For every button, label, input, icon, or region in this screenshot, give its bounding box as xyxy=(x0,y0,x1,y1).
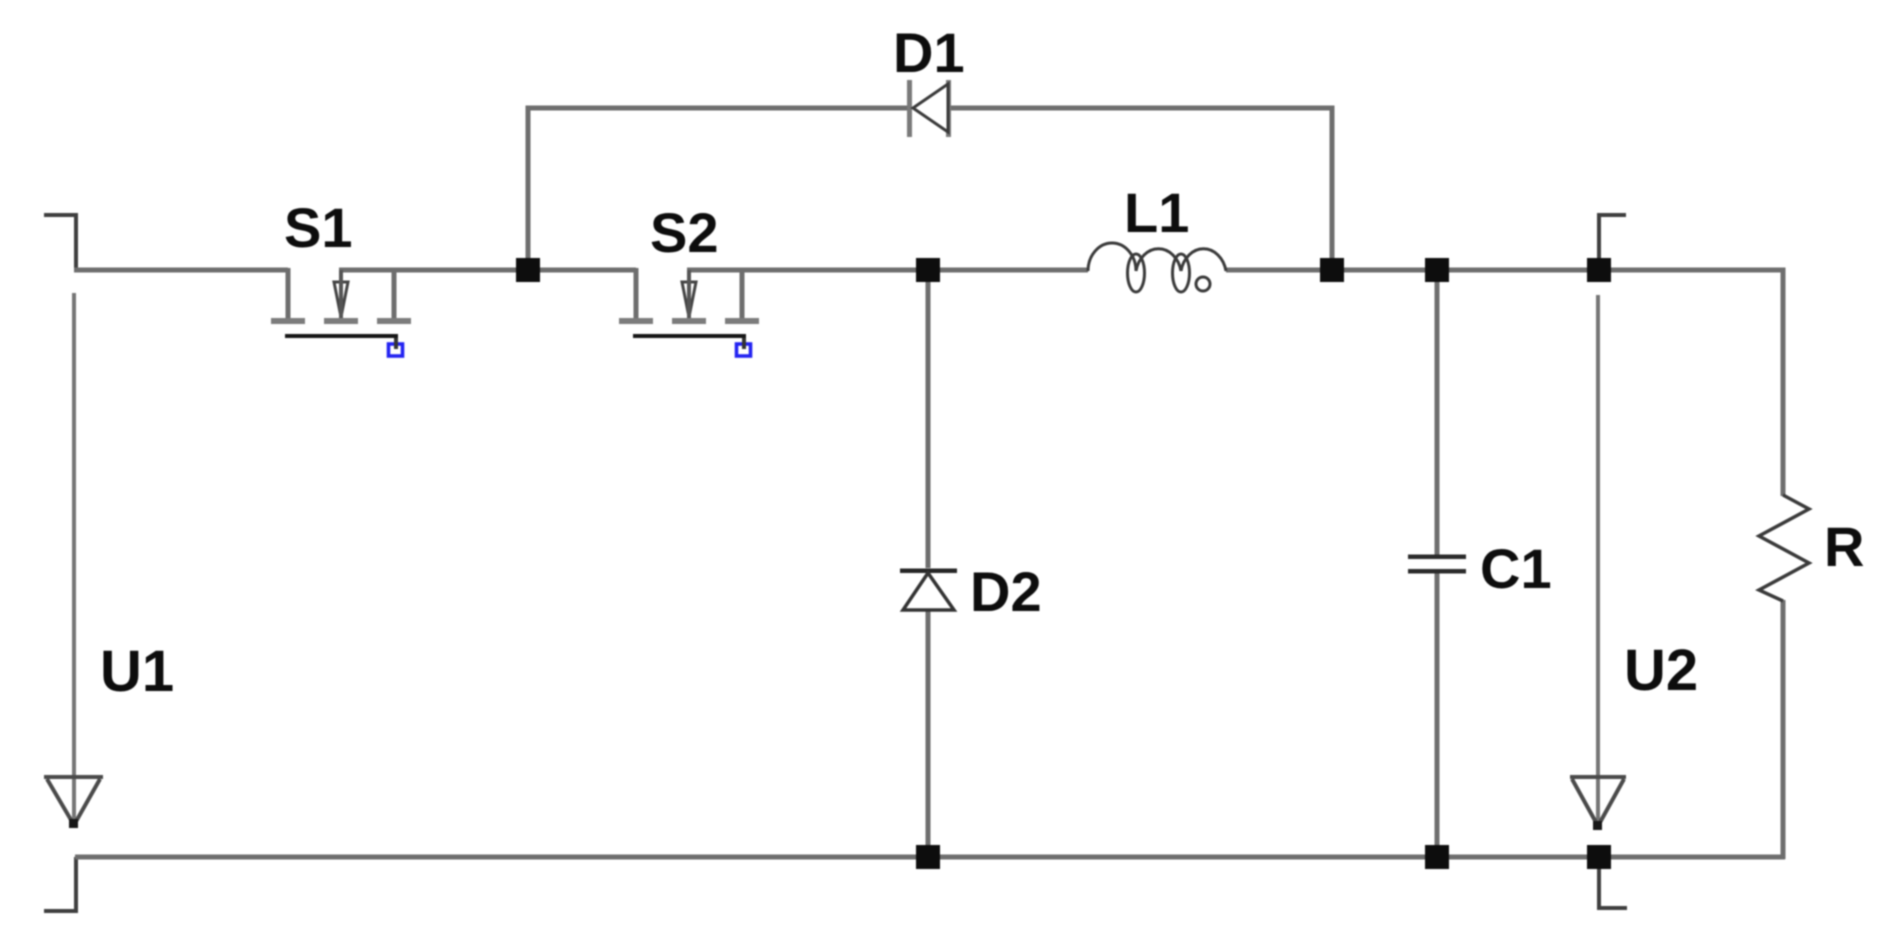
port terminal top-right xyxy=(1599,215,1626,270)
node: C1 bottom xyxy=(1425,845,1449,869)
node: output top xyxy=(1587,258,1611,282)
node: S1-S2 / D1 tap xyxy=(516,258,540,282)
wire top bus: port to S1 drain xyxy=(74,268,288,273)
wire top bus: L1 to R corner, down to resistor xyxy=(1226,270,1783,496)
wire bottom bus xyxy=(75,855,1785,860)
wire D1 branch left riser and top run xyxy=(528,108,908,272)
node: C1 top xyxy=(1425,258,1449,282)
voltage arrow U1 xyxy=(44,293,103,828)
svg-text:C1: C1 xyxy=(1480,537,1552,600)
svg-text:R: R xyxy=(1824,515,1864,578)
gate terminal marker S1 xyxy=(389,338,403,356)
wire D2 branch lower xyxy=(926,611,931,857)
gate terminal marker S2 xyxy=(737,338,751,356)
port terminal bottom-left xyxy=(44,857,76,911)
svg-text:S2: S2 xyxy=(650,201,719,264)
resistor R xyxy=(1759,495,1809,601)
wire D2 branch upper xyxy=(926,270,931,568)
node: output bottom xyxy=(1587,845,1611,869)
wire C1 branch upper xyxy=(1435,270,1440,556)
node: L1 / D1 return xyxy=(1320,258,1344,282)
wire C1 branch lower xyxy=(1435,572,1440,857)
wire D1 output run and right riser xyxy=(950,108,1332,272)
capacitor C1 xyxy=(1408,555,1466,574)
diode D1 xyxy=(907,80,951,137)
svg-text:S1: S1 xyxy=(284,196,353,259)
svg-text:U1: U1 xyxy=(100,639,174,704)
svg-text:U2: U2 xyxy=(1624,638,1698,703)
wire top bus: S1 body to S2 drain xyxy=(339,268,636,273)
gate of S2 xyxy=(633,336,744,349)
port terminal bottom-right xyxy=(1599,857,1627,908)
gate of S1 xyxy=(285,336,396,349)
port terminal top-left xyxy=(44,215,76,270)
transistor S2 (MOSFET) xyxy=(619,268,759,324)
diode D2 xyxy=(900,569,957,611)
wire top bus: S2 body to L1 xyxy=(687,268,1088,273)
wire resistor bottom to bottom bus xyxy=(1781,600,1786,859)
inductor L1 xyxy=(1088,243,1226,292)
svg-text:L1: L1 xyxy=(1124,181,1189,244)
voltage arrow U2 xyxy=(1570,295,1626,830)
transistor S1 (MOSFET) xyxy=(271,268,411,324)
node: D2 bottom xyxy=(916,845,940,869)
svg-text:D1: D1 xyxy=(893,21,965,84)
svg-text:D2: D2 xyxy=(970,560,1042,623)
node: S2 / D2 / L1 tap xyxy=(916,258,940,282)
